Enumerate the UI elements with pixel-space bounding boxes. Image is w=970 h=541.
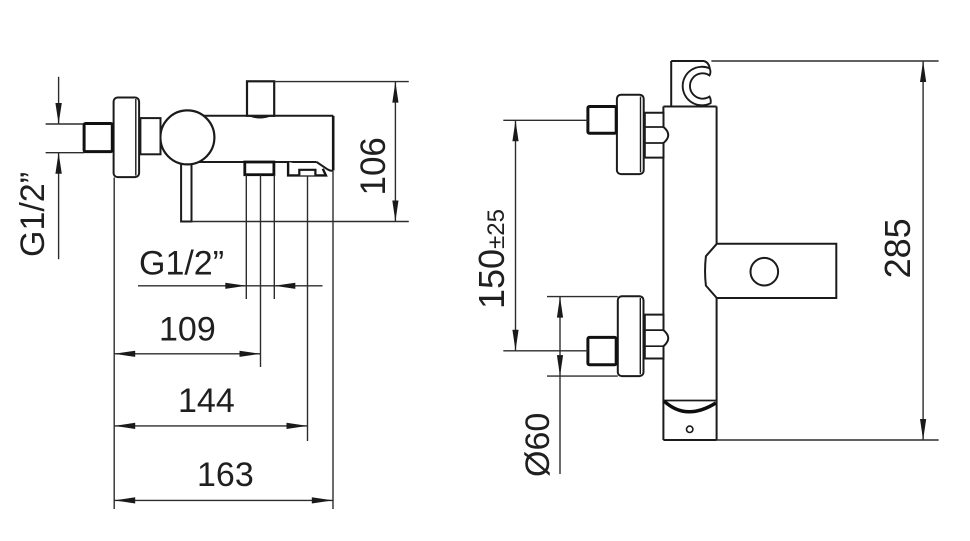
dim 109 — [114, 353, 260, 355]
svg-text:G1/2”: G1/2” — [14, 172, 52, 257]
bottom inlet: flange — [618, 296, 644, 376]
svg-text:Ø60: Ø60 — [519, 413, 557, 477]
arrow down at left thread top — [55, 103, 61, 124]
dim 285: line — [922, 61, 924, 440]
svg-text:106: 106 — [354, 137, 393, 195]
dim 285: ext bottom — [717, 439, 939, 441]
dim ø60: line — [559, 297, 561, 474]
hand shower outlet piece — [288, 162, 326, 175]
dim 150±25: line — [515, 120, 517, 350]
dim ø60: ext bottom — [547, 375, 618, 377]
svg-text:G1/2”: G1/2” — [139, 245, 224, 283]
wall nipple (bold) — [84, 124, 112, 152]
bracket C clip — [683, 67, 711, 106]
dim 106: ext bottom — [192, 221, 409, 223]
arrow up at left thread bottom — [55, 153, 61, 174]
wall flange (escutcheon) — [114, 98, 140, 178]
ext line port center — [260, 175, 262, 367]
wire: left thread ext line bottom — [46, 152, 85, 154]
body main outline — [192, 116, 333, 171]
outlet notch — [299, 170, 315, 176]
top inlet: nipple — [588, 107, 616, 134]
top shower port — [247, 81, 274, 116]
dim 163 — [114, 499, 333, 501]
body outline — [663, 107, 716, 441]
top inlet: hex nut — [645, 113, 668, 158]
top port fillet arc — [250, 116, 269, 118]
dim 144 — [114, 425, 307, 427]
lever handle — [181, 150, 191, 222]
flange inner edge line — [135, 99, 137, 176]
bottom inlet: hex nut — [645, 315, 668, 359]
bottom cap line — [663, 400, 716, 402]
svg-text:163: 163 — [197, 456, 254, 494]
ext line notch center — [307, 176, 309, 441]
valve cap circle — [160, 110, 214, 164]
dim 150±25: ext bottom — [503, 350, 588, 352]
svg-text:285: 285 — [877, 218, 918, 278]
dim ø60: ext top — [547, 296, 618, 298]
body right edge bold — [332, 116, 335, 171]
dim 106: line — [394, 82, 396, 222]
arrow left-point — [274, 283, 295, 289]
dim 285: ext top — [711, 60, 938, 62]
connector rect — [140, 118, 160, 154]
shower bracket outline — [670, 61, 672, 107]
ext line from port left edge — [245, 175, 247, 299]
ext line spout tip — [332, 171, 334, 509]
bottom cap hole — [687, 426, 693, 432]
wire: left thread dim line upper segment — [58, 77, 60, 124]
arrow right-point — [225, 283, 246, 289]
spout screw circle — [751, 258, 779, 286]
wire: left thread ext line top — [46, 123, 85, 125]
dim 106: ext top — [274, 81, 409, 83]
ext line port right edge — [273, 175, 275, 299]
dim 150±25: ext top — [503, 119, 588, 121]
svg-text:109: 109 — [159, 310, 216, 348]
top inlet: flange — [617, 95, 644, 174]
bottom cap arc — [664, 401, 716, 412]
bottom tub port (bold) — [245, 162, 274, 175]
bottom inlet: nipple — [588, 337, 616, 364]
ext line wall left — [113, 178, 115, 510]
bracket top edge bend into clip tip — [704, 61, 710, 68]
spout (front) — [705, 244, 836, 298]
svg-text:144: 144 — [178, 382, 235, 420]
wire: left thread dim line lower segment — [58, 153, 60, 260]
dim G1/2 bottom: line — [138, 285, 323, 287]
